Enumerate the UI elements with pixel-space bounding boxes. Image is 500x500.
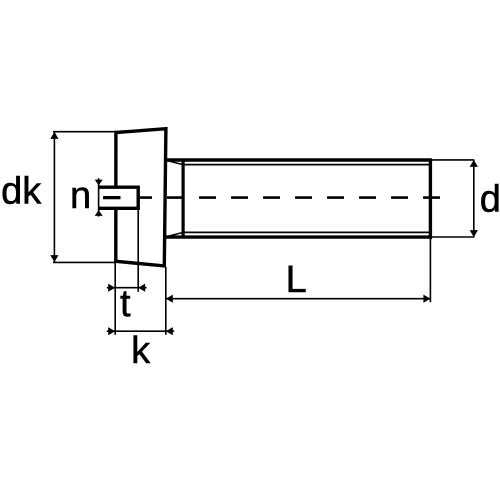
thread termination line — [182, 160, 185, 237]
centerline dash inside slot area redraw (over head fill) — [103, 196, 153, 199]
dk arrow down — [50, 255, 58, 262]
slot — [99, 187, 138, 208]
k dimension line — [107, 330, 174, 332]
head outline — [116, 129, 166, 266]
shaft end line — [429, 158, 432, 239]
svg-text:d: d — [480, 179, 500, 221]
k arrow left — [108, 327, 115, 335]
n arrow top — [95, 180, 103, 186]
svg-text:dk: dk — [1, 170, 42, 212]
t arrow left — [108, 284, 115, 292]
d dimension line — [473, 160, 475, 237]
dk extension line top — [53, 131, 116, 133]
thread runout slant top — [167, 161, 183, 165]
t dimension line — [107, 287, 147, 289]
n dimension line — [98, 178, 100, 216]
d arrow down — [470, 230, 478, 237]
n arrow bottom — [95, 210, 103, 216]
d arrow up — [470, 160, 478, 167]
t extension line right — [137, 209, 139, 292]
thread minor top line — [183, 164, 429, 166]
shaft outer bottom line — [166, 235, 431, 238]
svg-text:n: n — [70, 175, 91, 217]
svg-text:t: t — [120, 283, 131, 325]
thread runout slant bottom — [167, 232, 183, 236]
d extension line top — [432, 159, 474, 161]
L arrow right — [423, 295, 430, 303]
shaft outer top line — [166, 158, 431, 161]
left extension line (t and k) — [114, 263, 116, 335]
dk arrow up — [50, 132, 58, 139]
k arrow right — [166, 327, 173, 335]
L dimension line — [166, 298, 431, 300]
centerline axis — [103, 196, 442, 199]
t arrow right — [138, 284, 145, 292]
svg-text:L: L — [286, 259, 307, 301]
thread minor bottom line — [183, 231, 429, 233]
svg-text:k: k — [131, 330, 151, 372]
d extension line bottom — [432, 236, 474, 238]
dk extension line bottom — [53, 261, 116, 263]
k extension line right — [165, 267, 167, 335]
centerline dash inside slot — [103, 196, 121, 199]
dk dimension line — [53, 132, 55, 262]
L arrow left — [166, 295, 173, 303]
L extension line right — [429, 239, 431, 303]
